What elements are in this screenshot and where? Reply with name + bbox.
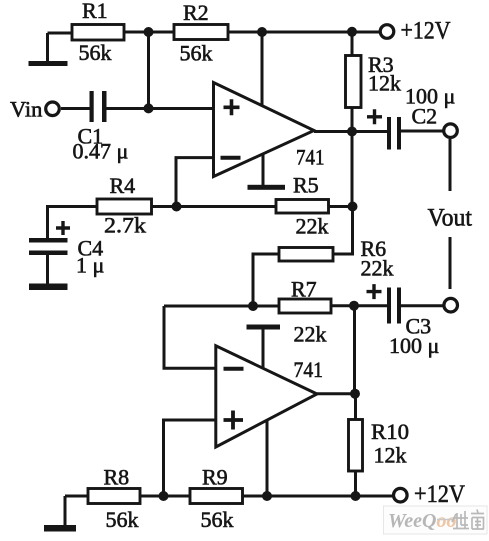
node R7 left junction [248, 301, 258, 311]
svg-text:R8: R8 [104, 465, 130, 490]
node junction R1/R2 [144, 27, 154, 37]
node R3 top tap [347, 27, 357, 37]
svg-text:56k: 56k [180, 41, 213, 66]
ground (above op-amp U2) [247, 325, 281, 330]
wire op2 - node to R7 [164, 305, 279, 308]
wire op2 + input drop [164, 420, 216, 496]
capacitor C3 [367, 284, 444, 358]
svg-text:2.7k: 2.7k [104, 213, 146, 238]
wire rail to R6 [333, 207, 353, 255]
svg-text:100 μ: 100 μ [389, 333, 439, 358]
svg-text:WeeQoo: WeeQoo [388, 510, 457, 532]
resistor R9 [190, 465, 243, 533]
node R5 output tap [348, 202, 358, 212]
wire R2 to +12V terminal [228, 31, 380, 34]
capacitor C2 [352, 84, 455, 150]
wire C4 corner to R4 [48, 207, 98, 239]
svg-text:22k: 22k [294, 322, 327, 347]
wire Vout upper [449, 139, 452, 191]
wire R3 top [351, 32, 354, 56]
node op2 output [350, 389, 360, 399]
wire R8 to R9 [140, 495, 190, 498]
svg-text:56k: 56k [201, 507, 234, 532]
svg-text:56k: 56k [106, 507, 139, 532]
node op2 supply tap [262, 491, 272, 501]
ground (below C4) [29, 284, 68, 291]
resistor R7 [279, 277, 331, 347]
wire op1 - input feedback [176, 158, 214, 207]
svg-text:741: 741 [296, 145, 325, 170]
svg-text:1 μ: 1 μ [76, 253, 104, 278]
op-amp U1 741 [214, 83, 325, 177]
svg-text:12k: 12k [368, 71, 401, 96]
wire ground to R1 [48, 32, 73, 35]
wire op2 - input loop [164, 306, 216, 368]
resistor R8 [88, 465, 140, 533]
svg-text:+12V: +12V [401, 16, 452, 45]
svg-text:R9: R9 [202, 465, 228, 490]
resistor R2 [174, 0, 228, 66]
terminal C3 output [444, 298, 458, 312]
svg-text:R4: R4 [110, 173, 136, 198]
svg-text:741: 741 [294, 357, 324, 382]
ground (top-left, R1 left) [29, 33, 68, 66]
svg-text:R2: R2 [183, 0, 209, 25]
wire C1 to op1 + input [107, 107, 214, 110]
resistor R4 [97, 173, 152, 238]
terminal +12V (bottom) [394, 481, 466, 508]
wire rail R7 to op2 output [353, 306, 356, 394]
wire R10 bottom stub [354, 471, 357, 496]
svg-text:Vout: Vout [428, 205, 473, 232]
resistor R6 [279, 236, 394, 281]
terminal C2 output [444, 124, 458, 138]
svg-text:R1: R1 [82, 0, 108, 23]
wire R9 to +12V terminal [243, 495, 393, 498]
wire Vout lower [449, 237, 452, 289]
svg-text:Vin: Vin [10, 97, 42, 122]
wire R10 top stub [354, 394, 357, 420]
wire bias divider drop [147, 32, 150, 108]
wire op2 top supply stub [262, 330, 265, 369]
wire R5 right to rail [329, 205, 353, 208]
resistor R5 [276, 173, 329, 239]
op-amp U2 741 [216, 346, 323, 447]
wire op1 V+ supply stub [261, 32, 264, 106]
node R8/R9 junction [159, 491, 169, 501]
wire op2 bottom supply stub [266, 421, 269, 497]
resistor R10 [349, 419, 410, 471]
svg-text:R10: R10 [371, 419, 409, 444]
node R10 bottom tap [351, 491, 361, 501]
svg-text:12k: 12k [374, 443, 407, 468]
node feedback junction [172, 202, 182, 212]
capacitor C1 [73, 91, 129, 164]
svg-text:56k: 56k [79, 40, 112, 65]
wire R6 left drop [253, 254, 279, 306]
node op1 supply tap [257, 27, 267, 37]
ground (below op-amp U1) [248, 185, 286, 190]
wire R4 to R5 [152, 205, 277, 208]
svg-text:R5: R5 [293, 173, 319, 198]
svg-text:0.47 μ: 0.47 μ [73, 139, 129, 164]
node op1 output [347, 127, 357, 137]
svg-text:R7: R7 [291, 277, 317, 302]
watermark WeeQoo [384, 506, 488, 534]
wire op2 output [317, 392, 355, 395]
wire Vin to C1 [61, 107, 90, 110]
capacitor C4 [29, 221, 104, 278]
node bias/input junction [144, 103, 154, 113]
terminal Vin [10, 97, 59, 122]
wire R3 bottom to output node rail [351, 108, 354, 207]
wire R7 right to C3 [331, 304, 387, 307]
wire op1 output [314, 130, 352, 133]
resistor R1 [72, 0, 124, 65]
wire R1 to R2 [124, 31, 174, 34]
terminal +12V (top) [380, 16, 451, 45]
wire ground to R8 [65, 495, 88, 498]
svg-text:22k: 22k [361, 256, 394, 281]
svg-text:C2: C2 [412, 104, 438, 129]
ground (bottom-left) [44, 496, 76, 532]
node R7/C3 junction [349, 301, 359, 311]
resistor R3 [346, 52, 402, 108]
wire op1 V- stub [262, 154, 265, 185]
svg-text:22k: 22k [296, 214, 329, 239]
wire C4 to ground [46, 255, 49, 284]
svg-text:+12V: +12V [414, 481, 465, 508]
